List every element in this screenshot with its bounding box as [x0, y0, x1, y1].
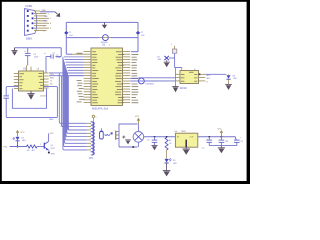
ground below D3: [163, 163, 171, 176]
wire bridge output to regulator: [144, 136, 176, 138]
capacitor C8: [219, 136, 228, 146]
sensor B1 circle on SDA wire: [130, 78, 175, 86]
svg-text:GND: GND: [49, 119, 54, 121]
connector J1 DB9 body: [25, 9, 37, 36]
wire vertical x66 lower segment to MCU RST: [66, 35, 83, 54]
capacitor C4 horizontal: [44, 52, 61, 59]
svg-text:8: 8: [207, 81, 208, 83]
svg-text:R2: R2: [50, 83, 52, 85]
ground below U4: [182, 147, 190, 155]
connector JP2 coil body: [91, 122, 95, 155]
connector J1 pin net labels: [44, 13, 53, 32]
IC U3 label: [180, 87, 188, 90]
capacitor C2 on x138 vertical: [136, 29, 145, 36]
plus mark inside J2: [122, 136, 125, 139]
IC U2 right net labels: [50, 74, 54, 85]
svg-text:8051AP/L-Sch: 8051AP/L-Sch: [92, 107, 109, 110]
svg-text:COM1: COM1: [25, 4, 33, 8]
MCU U1 right pin names: [115, 52, 124, 103]
MCU U1 right pins: [123, 52, 131, 103]
svg-text:GND: GND: [42, 10, 47, 12]
wire MAX232 R1IN to MCU and JP2: [49, 76, 87, 127]
svg-text:104: 104: [225, 141, 228, 143]
connector J1 DB9 designator: [25, 4, 33, 8]
power port VCC above J2: [135, 116, 140, 124]
svg-text:C9: C9: [240, 141, 242, 143]
svg-text:10uF: 10uF: [34, 57, 39, 59]
IC U2 right pins: [44, 73, 49, 88]
IC U2 top pins: [27, 57, 32, 72]
svg-text:232G-R: 232G-R: [40, 96, 47, 98]
IC U3 right pins: [199, 74, 206, 81]
connector JP2 pin leads: [87, 123, 91, 150]
svg-text:VCC: VCC: [135, 116, 140, 118]
MCU U1 right net labels: [132, 54, 139, 102]
svg-text:24C02: 24C02: [180, 87, 188, 90]
svg-text:1: 1: [40, 144, 41, 146]
net label inside loop: [40, 96, 47, 98]
IC U3 pin names: [181, 72, 197, 81]
MCU U1 left pin names: [92, 52, 98, 103]
MCU U1 left lower net labels: [77, 80, 85, 101]
ground below D4: [225, 84, 232, 90]
ground arrow at DB9 wire end: [55, 12, 60, 17]
wire loop inner around U2: [12, 89, 46, 109]
svg-text:5: 5: [95, 116, 96, 118]
bus vertical wires to JP2: [63, 57, 87, 150]
svg-text:C7: C7: [202, 148, 204, 150]
MCU U1 designator: [102, 43, 111, 47]
jack J2 inner contacts: [116, 131, 120, 140]
capacitor C7 electrolytic: [202, 136, 212, 150]
connector JP2 label: [89, 157, 94, 160]
svg-text:VCC: VCC: [50, 133, 55, 135]
IC U2 left pins: [14, 74, 19, 89]
wire GND bus horizontal y22: [66, 21, 138, 23]
svg-text:R2: R2: [169, 140, 171, 142]
regulator U4 designator: [175, 131, 187, 133]
ground below D2: [164, 60, 170, 67]
IC U2 MAX232 body: [19, 71, 44, 91]
svg-text:LED: LED: [173, 163, 177, 165]
svg-text:LED: LED: [22, 140, 26, 142]
capacitor C3 vertical: [24, 48, 39, 59]
IC U2 bottom ground: [27, 91, 34, 100]
power port VCC above JP2: [92, 115, 96, 121]
ground below capacitor bus: [218, 146, 225, 154]
wire C3 to U2 pin: [27, 58, 29, 65]
svg-text:T2: T2: [50, 80, 52, 82]
capacitor C9: [234, 137, 243, 146]
jumper W1 body: [171, 44, 177, 53]
regulator U4 body: [175, 133, 197, 147]
svg-text:9012: 9012: [51, 148, 55, 150]
svg-text:4K7: 4K7: [32, 150, 35, 152]
wire jumper down to U3: [175, 53, 182, 70]
svg-text:T2D: T2D: [50, 74, 54, 76]
wire R1 to Q1 base: [37, 144, 44, 147]
wire Q1 collector to VCC label: [49, 133, 55, 141]
svg-text:1N4: 1N4: [233, 78, 236, 80]
wire loop outer around U2: [6, 87, 57, 118]
ground bus under capacitors: [209, 145, 237, 147]
ground inside J2: [125, 140, 134, 148]
diode D4 vertical: [226, 74, 236, 84]
fuse F1 circle: [99, 35, 110, 45]
resistor R2 vertical: [165, 136, 172, 150]
IC U3 24C02 body: [180, 69, 199, 83]
ground arrow left of MAX232 rail: [11, 48, 17, 56]
wire D1 to P10 node: [17, 141, 19, 148]
wire Q1 emitter junction: [48, 150, 56, 156]
svg-text:1: 1: [171, 44, 172, 46]
connector J1 pin stubs: [34, 11, 49, 31]
svg-text:DS18B20: DS18B20: [146, 84, 154, 86]
LED D3: [165, 150, 178, 165]
svg-text:VCC: VCC: [20, 132, 25, 134]
switch S1 body: [100, 128, 104, 139]
capacitor C5 on loop left edge: [3, 90, 9, 99]
capacitor C1 on x66 vertical: [64, 29, 73, 37]
power jack J2 outline: [119, 124, 138, 147]
resistor R1: [27, 145, 38, 152]
wire regulator output rail: [198, 136, 236, 138]
IC U2 MAX232 designator: [23, 68, 40, 71]
capacitor C6 to ground: [147, 136, 157, 145]
bus horizontal wires from MCU port pins: [64, 57, 84, 76]
power port VCC above C8: [218, 129, 224, 137]
connector J1 label DB9: [26, 37, 32, 41]
transistor Q1: [44, 141, 55, 150]
LED D1: [13, 137, 27, 142]
MCU U1 body: [91, 48, 123, 106]
svg-text:8: 8: [194, 69, 195, 71]
svg-text:RXD: RXD: [44, 21, 49, 23]
IC U2 pin names: [19, 73, 44, 89]
svg-text:R1: R1: [27, 150, 29, 152]
wire vertical x66 upper segment: [65, 22, 67, 30]
wire DB9 pin5 to ground: [40, 10, 55, 12]
ground symbol on bus at x104: [102, 22, 107, 28]
svg-text:R2D: R2D: [50, 77, 54, 79]
ground below C6: [151, 145, 157, 150]
wire U3 pin to diode D4: [205, 73, 226, 75]
svg-text:VCC: VCC: [218, 129, 223, 131]
net label P10 and wire: [4, 147, 27, 149]
wire branch y37.6 to fuse: [66, 37, 99, 39]
switch S1 label marks: [105, 132, 113, 135]
wire VCC rail above MAX232: [15, 47, 62, 49]
wire corner x61 down: [60, 48, 62, 57]
MCU U1 left pins: [84, 52, 91, 103]
svg-text:A1.1: A1.1: [207, 77, 211, 80]
ground below-left of U3: [172, 68, 179, 93]
svg-text:1N4: 1N4: [158, 59, 161, 61]
wire C4 to U2 right pin1: [45, 57, 47, 74]
bridge rectifier B2 circle: [133, 124, 144, 147]
svg-text:JP2: JP2: [89, 157, 94, 160]
wire vertical x138 upper: [137, 22, 139, 30]
wire MCU to U3 SCL: [130, 77, 175, 80]
wire MAX232 T1OUT to MCU and JP2: [49, 73, 87, 123]
power port VCC above D1: [16, 130, 25, 137]
diode D2 to ground: [157, 56, 174, 61]
border frame: [0, 0, 250, 184]
svg-text:C6: C6: [147, 140, 149, 142]
wire vertical x138 lower to MCU pin: [131, 36, 138, 52]
IC U3 left pins: [175, 74, 180, 81]
MCU U1 part number label: [92, 107, 109, 110]
IC U3 right net labels: [199, 73, 211, 83]
MCU U1 left upper net labels: [53, 53, 83, 55]
wire fuse to x138 vertical: [111, 37, 138, 39]
svg-text:DB9: DB9: [26, 37, 32, 41]
svg-text:TXD: TXD: [44, 16, 49, 18]
loop corner label: [49, 119, 54, 121]
svg-text:10uF: 10uF: [56, 57, 61, 59]
svg-text:U1: U1: [102, 43, 106, 47]
